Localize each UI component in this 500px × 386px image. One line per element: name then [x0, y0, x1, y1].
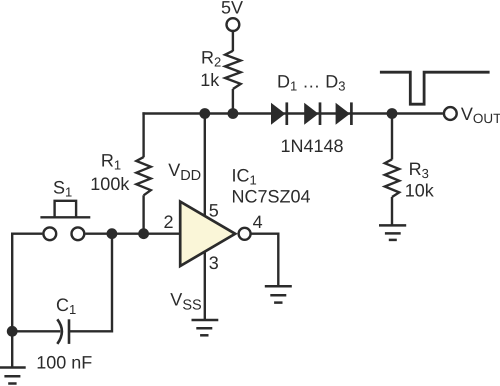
node junction C1 branch/input: [107, 228, 118, 239]
svg-text:D1 … D3: D1 … D3: [277, 71, 345, 93]
diode D1: [271, 102, 287, 125]
svg-text:1N4148: 1N4148: [281, 136, 344, 156]
wire 5V terminal to R2: [232, 31, 234, 52]
svg-text:1k: 1k: [200, 70, 220, 90]
svg-text:100 nF: 100 nF: [36, 353, 92, 373]
wire inverter output pin 4 to ground: [251, 234, 278, 287]
svg-text:R3: R3: [409, 159, 429, 181]
svg-text:IC1: IC1: [232, 165, 257, 187]
svg-text:VSS: VSS: [170, 290, 201, 314]
pulse waveform symbol: [380, 72, 490, 104]
node junction R1/input: [138, 228, 149, 239]
wire R1 to input node: [142, 195, 144, 233]
svg-text:R2: R2: [201, 48, 221, 70]
svg-text:100k: 100k: [90, 174, 130, 194]
wire S1 to inverter input: [85, 232, 180, 234]
svg-text:5: 5: [209, 201, 219, 221]
svg-text:VDD: VDD: [168, 160, 201, 184]
wire R3 branch: [391, 114, 393, 160]
svg-text:NC7SZ04: NC7SZ04: [232, 187, 311, 207]
svg-text:4: 4: [253, 212, 263, 232]
svg-text:10k: 10k: [405, 181, 435, 201]
5V supply terminal: [221, 0, 243, 31]
wire S1 left to ground: [12, 234, 42, 368]
svg-text:R1: R1: [101, 151, 121, 173]
node junction C1/ground branch: [7, 326, 18, 337]
ground (VSS pin 3): [192, 320, 219, 335]
svg-text:3: 3: [209, 253, 219, 273]
ground (bottom left): [0, 368, 26, 384]
svg-text:S1: S1: [53, 177, 72, 199]
ground (R3): [379, 225, 406, 240]
wire R3 to ground: [391, 197, 393, 226]
wire top rail: [142, 112, 443, 114]
wire VDD/VSS vertical through inverter (pin 5 top, pin 3 bottom): [204, 114, 206, 321]
wire corner to R1: [142, 112, 144, 157]
svg-text:C1: C1: [56, 295, 76, 317]
resistor R2: [200, 48, 240, 90]
wire R2 to top rail: [232, 89, 234, 114]
wire node to C1: [12, 330, 60, 332]
diode D2: [304, 102, 320, 125]
resistor R3: [385, 159, 435, 201]
switch S1: [40, 177, 90, 240]
node junction VDD branch/top rail: [199, 108, 210, 119]
terminal VOUT: [444, 104, 500, 126]
diode D3: [336, 102, 352, 125]
resistor R1: [90, 151, 151, 196]
node junction R2/top rail: [228, 108, 239, 119]
node junction diodes/R3/VOUT: [387, 108, 398, 119]
svg-text:VOUT: VOUT: [461, 104, 500, 126]
wire C1 to input node: [69, 234, 112, 332]
svg-text:2: 2: [164, 212, 174, 232]
inverter IC1 NC7SZ04: [180, 165, 310, 266]
svg-text:5V: 5V: [221, 0, 243, 17]
ground (pin 4): [265, 286, 292, 302]
capacitor C1: [36, 295, 92, 373]
